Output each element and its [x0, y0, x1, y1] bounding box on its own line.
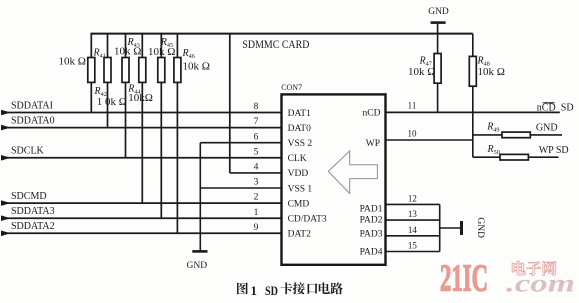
- wire SDDATA1 to pin 8: [1, 112, 282, 114]
- resistor R47: [434, 34, 441, 113]
- resistor R42: [104, 34, 111, 128]
- svg-text:SDDATA2: SDDATA2: [11, 221, 55, 232]
- svg-text:21IC: 21IC: [440, 258, 488, 300]
- wire VDD pin 4: [230, 172, 282, 174]
- svg-text:VDD: VDD: [288, 169, 309, 179]
- svg-text:.com: .com: [506, 271, 575, 298]
- wire SDCLK to pin 5: [1, 157, 282, 159]
- node SDDATA3: entry wedge: [1, 215, 11, 221]
- svg-text:10k Ω: 10k Ω: [408, 66, 435, 78]
- node SDCLK: entry wedge: [1, 155, 11, 161]
- symbol: card insert arrow: [328, 151, 377, 194]
- svg-text:15: 15: [408, 241, 418, 251]
- svg-text:10k Ω: 10k Ω: [183, 60, 210, 72]
- svg-text:SDDATAI: SDDATAI: [11, 100, 53, 111]
- wire pin 11 nCD: [386, 111, 560, 113]
- svg-text:SDMMC CARD: SDMMC CARD: [242, 39, 309, 51]
- svg-text:DAT2: DAT2: [288, 230, 311, 240]
- svg-text:CLK: CLK: [288, 154, 307, 164]
- label nCD_SD with overline: [537, 102, 574, 113]
- wire pin 15 PAD4: [386, 251, 440, 253]
- svg-text:14: 14: [408, 225, 418, 235]
- ground (bottom): [187, 251, 208, 270]
- svg-text:nCD: nCD: [363, 109, 381, 119]
- wire VSS2 pin 6: [200, 142, 281, 144]
- wire SDDATA0 to pin 7: [1, 127, 282, 129]
- svg-text:PAD4: PAD4: [360, 248, 383, 258]
- svg-text:10: 10: [408, 129, 418, 139]
- svg-text:DAT0: DAT0: [288, 124, 311, 134]
- svg-text:PAD2: PAD2: [360, 216, 383, 226]
- svg-text:10k Ω: 10k Ω: [59, 56, 86, 68]
- svg-text:11: 11: [408, 101, 417, 111]
- svg-text:3: 3: [254, 178, 259, 188]
- svg-text:5: 5: [254, 147, 259, 157]
- resistor R41: [88, 34, 95, 113]
- svg-text:CD/DAT3: CD/DAT3: [288, 215, 327, 225]
- svg-text:WP: WP: [366, 139, 380, 149]
- svg-text:10k Ω: 10k Ω: [114, 46, 141, 58]
- svg-text:DAT1: DAT1: [288, 109, 311, 119]
- svg-text:13: 13: [408, 209, 418, 219]
- svg-text:GND: GND: [475, 217, 485, 238]
- wire: PAD common bus: [439, 204, 441, 251]
- ground (right, rotated): [440, 217, 485, 238]
- node SDDATA0: entry wedge: [1, 125, 11, 131]
- wire: VSS drop to ground: [199, 143, 201, 252]
- svg-text:WP SD: WP SD: [539, 145, 569, 156]
- svg-text:8: 8: [254, 102, 259, 112]
- svg-text:10kΩ: 10kΩ: [128, 92, 153, 104]
- resistor R50: [473, 154, 559, 160]
- resistor R44: [139, 34, 146, 204]
- svg-text:10k Ω: 10k Ω: [148, 46, 175, 58]
- resistor R43: [122, 34, 129, 158]
- wire: pull-up bus (top): [91, 33, 473, 35]
- svg-text:2: 2: [254, 193, 259, 203]
- connector CON7 body: [282, 94, 386, 264]
- svg-text:1: 1: [254, 208, 259, 218]
- svg-text:10k Ω: 10k Ω: [478, 66, 505, 78]
- wire SDDATA3 to pin 1: [1, 217, 282, 219]
- resistor R45: [158, 34, 165, 219]
- svg-text:12: 12: [408, 193, 417, 203]
- svg-text:nCD: nCD: [537, 102, 556, 113]
- svg-text:9: 9: [254, 223, 259, 233]
- svg-text:GND: GND: [428, 7, 449, 17]
- svg-text:1 0k Ω: 1 0k Ω: [97, 96, 127, 108]
- caption: figure 1 SD card interface circuit: [237, 282, 343, 298]
- svg-text:CMD: CMD: [288, 199, 310, 209]
- svg-text:SD: SD: [265, 283, 278, 298]
- svg-text:1: 1: [251, 283, 258, 298]
- node SDCMD: entry wedge: [1, 200, 11, 206]
- svg-text:4: 4: [254, 163, 259, 173]
- ground (top, for R47/R48): [428, 7, 449, 33]
- logo 21IC.com (watermark): [440, 258, 575, 300]
- wire VSS1 pin 3: [200, 187, 281, 189]
- resistor R46: [174, 34, 181, 234]
- svg-text:GND: GND: [187, 261, 208, 271]
- svg-text:SDDATA3: SDDATA3: [11, 206, 55, 217]
- svg-text:6: 6: [254, 132, 259, 142]
- wire SDDATA2 to pin 9: [1, 232, 282, 234]
- wire: VDD drop from bus to pin 4 (card box left edge): [229, 34, 231, 173]
- svg-text:SDCLK: SDCLK: [11, 146, 45, 157]
- svg-text:VSS 1: VSS 1: [288, 184, 313, 194]
- node SDDATA1: entry wedge: [1, 110, 11, 116]
- svg-text:SDCMD: SDCMD: [11, 191, 47, 202]
- svg-text:PAD1: PAD1: [360, 205, 383, 215]
- svg-text:PAD3: PAD3: [360, 230, 383, 240]
- resistor R48: [469, 34, 476, 158]
- svg-text:VSS 2: VSS 2: [288, 139, 313, 149]
- svg-text:CON7: CON7: [281, 83, 302, 92]
- node SDDATA2: entry wedge: [1, 231, 11, 237]
- wire pin 13 PAD2: [386, 219, 440, 221]
- svg-text:SD: SD: [561, 102, 574, 113]
- svg-text:SDDATA0: SDDATA0: [11, 115, 55, 126]
- resistor R49: [473, 132, 562, 138]
- wire SDCMD to pin 2: [1, 202, 282, 204]
- wire pin 12 PAD1: [386, 203, 440, 205]
- svg-text:GND: GND: [536, 123, 558, 134]
- wire pin 14 PAD3: [386, 235, 440, 237]
- wire pin 10 WP: [386, 139, 473, 141]
- svg-text:7: 7: [254, 117, 259, 127]
